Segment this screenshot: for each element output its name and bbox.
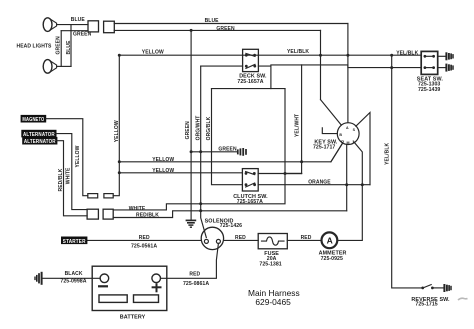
svg-text:725-0561A: 725-0561A — [131, 243, 157, 249]
wire magneto yellow — [46, 119, 88, 196]
wire red starter to solenoid — [87, 239, 201, 241]
svg-text:YEL/WHT: YEL/WHT — [295, 114, 301, 137]
svg-text:ALTERNATOR: ALTERNATOR — [24, 139, 56, 145]
alternator box 2 — [23, 137, 57, 145]
wire green to connector — [61, 30, 88, 32]
wire yellow / yel-blk top run — [119, 54, 421, 56]
clutch switch top contacts — [245, 172, 256, 175]
ammeter circle — [322, 232, 338, 248]
node green tap on yel/blk — [319, 54, 322, 57]
svg-text:YELLOW: YELLOW — [75, 145, 81, 167]
battery positive terminal — [152, 274, 161, 283]
wire clutch top-right to staircase — [258, 173, 301, 175]
wire orange run — [258, 184, 370, 186]
svg-text:RED: RED — [189, 271, 200, 277]
wire blue riser lamp2 — [70, 25, 72, 67]
deck switch top contacts — [245, 53, 256, 56]
key switch left spoke — [322, 128, 337, 134]
wire deck bottom-right jog — [258, 66, 271, 89]
svg-text:ORG/WHT: ORG/WHT — [195, 116, 201, 141]
connector (headlight) half A — [88, 21, 99, 32]
svg-text:BLACK: BLACK — [65, 271, 83, 277]
key switch terminal letters — [339, 126, 355, 145]
key switch lower-left spoke — [331, 143, 343, 162]
ground (battery chassis) — [35, 272, 42, 285]
wire cross run at 88.6 — [212, 88, 286, 90]
magneto box — [21, 115, 46, 123]
seat switch box — [421, 51, 438, 74]
svg-text:725-1715: 725-1715 — [415, 302, 437, 308]
wire yel/wht riser — [301, 65, 303, 174]
wire blue down to key switch top — [347, 24, 349, 123]
node yellow-2 tap — [118, 171, 121, 174]
svg-text:RED/BLK: RED/BLK — [58, 168, 64, 191]
svg-text:A: A — [346, 126, 349, 130]
wire green spur — [191, 151, 236, 153]
wire seat top to plug — [438, 55, 446, 57]
clutch switch bottom contacts — [245, 183, 256, 187]
wire yellow riser — [113, 55, 119, 196]
svg-text:GREEN: GREEN — [218, 147, 237, 153]
wire org/wht riser — [201, 66, 207, 237]
svg-text:RED/BLK: RED/BLK — [136, 212, 159, 218]
svg-text:RED: RED — [139, 235, 150, 241]
starter box — [62, 237, 87, 245]
head light lamp 1 — [43, 18, 56, 32]
svg-text:BATTERY: BATTERY — [120, 314, 146, 320]
svg-text:725-1717: 725-1717 — [313, 144, 335, 150]
wire blue main run — [114, 23, 348, 25]
svg-text:HEAD LIGHTS: HEAD LIGHTS — [17, 44, 53, 50]
svg-text:YEL/BLK: YEL/BLK — [287, 49, 309, 55]
svg-text:STARTER: STARTER — [63, 239, 86, 245]
clutch switch box — [242, 169, 258, 191]
deck switch box — [243, 49, 259, 71]
wire alternator2 red/blk — [57, 141, 87, 216]
connector (engine big) half B — [103, 209, 113, 219]
wire alternator1 white — [56, 134, 87, 210]
wire yellow-1 run — [119, 143, 342, 162]
wire green main run — [114, 29, 320, 31]
wire red/blk run — [113, 211, 347, 218]
faint pencil mark — [458, 298, 468, 300]
wire yel/blk reverse riser — [392, 55, 422, 288]
connector (seat plug top) — [446, 52, 453, 60]
svg-text:YELLOW: YELLOW — [152, 168, 174, 174]
svg-text:BLUE: BLUE — [66, 40, 72, 55]
node seat feed tap — [390, 66, 393, 69]
svg-text:GREEN: GREEN — [56, 36, 62, 55]
svg-text:YEL/BLK: YEL/BLK — [396, 50, 418, 56]
svg-text:725-1657A: 725-1657A — [237, 199, 263, 205]
svg-text:725-1381: 725-1381 — [259, 262, 281, 268]
svg-text:725-0861A: 725-0861A — [183, 281, 209, 287]
wire green diagonal into key switch — [321, 100, 342, 125]
connector (engine big) half A — [87, 209, 98, 219]
solenoid circle — [201, 227, 223, 249]
wire red solenoid to fuse — [224, 239, 259, 241]
wire lamp2 stub — [57, 65, 71, 67]
connector (reverse plug) — [444, 284, 451, 292]
battery cell 2 — [134, 295, 159, 303]
wire solenoid to battery plus — [161, 243, 219, 278]
node org/wht crossings — [199, 202, 202, 205]
svg-text:WHITE: WHITE — [129, 206, 146, 212]
svg-text:YELLOW: YELLOW — [152, 157, 174, 163]
seat switch bottom contacts — [424, 66, 436, 69]
svg-text:ORANGE: ORANGE — [308, 179, 331, 185]
wire green down to key switch — [320, 30, 322, 99]
wire green riser lamp area — [60, 31, 62, 67]
wire yellow-2 run to clutch top — [119, 172, 242, 174]
svg-text:725-1439: 725-1439 — [418, 87, 440, 93]
svg-text:GREEN: GREEN — [185, 121, 191, 140]
connector (engine small) half B — [104, 194, 113, 198]
connector (seat plug bottom) — [446, 64, 453, 72]
node yellow-1 tap — [118, 160, 121, 163]
node yel/wht on yellow-1 — [300, 160, 303, 163]
reverse switch contacts — [421, 285, 443, 290]
node blue/key tap — [346, 54, 349, 57]
solenoid terminal left — [204, 239, 208, 243]
solenoid terminal right — [216, 239, 220, 243]
svg-text:A: A — [327, 236, 333, 246]
node reverse riser tap — [390, 54, 393, 57]
wire seat feed run — [271, 65, 421, 68]
wire deck bottom-left to org/wht riser — [201, 65, 243, 67]
svg-text:RED: RED — [301, 235, 312, 241]
wire seat bottom to plug — [438, 67, 446, 69]
svg-text:725-0998A: 725-0998A — [60, 278, 86, 284]
battery box — [92, 266, 167, 310]
key switch bottom spoke to red/blk — [346, 144, 348, 210]
wire red fuse to ammeter — [287, 239, 321, 241]
battery cell 1 — [99, 295, 127, 303]
key switch circle U1 — [337, 123, 359, 145]
deck switch bottom contacts — [245, 64, 256, 68]
wire drop to white run — [113, 89, 285, 210]
alternator box 1 — [22, 130, 56, 138]
node orange taps — [345, 183, 348, 186]
node yellow riser top corner — [118, 54, 121, 57]
svg-text:725-1657A: 725-1657A — [237, 79, 263, 85]
svg-text:YELLOW: YELLOW — [114, 120, 120, 142]
connector (headlight) half B — [104, 21, 115, 33]
wire staircase to deck drop — [285, 173, 302, 175]
svg-text:YEL/BLK: YEL/BLK — [385, 143, 391, 165]
wire green long riser to ground — [190, 30, 192, 220]
node green tap — [190, 29, 193, 32]
connector (engine small) half A — [88, 194, 98, 198]
wire black battery to ground — [42, 277, 100, 279]
svg-text:GREEN: GREEN — [216, 26, 235, 32]
svg-text:ORG/BLK: ORG/BLK — [206, 116, 212, 140]
node staircase junction — [284, 172, 287, 175]
svg-text:MAGNETO: MAGNETO — [22, 117, 44, 123]
seat switch top contacts — [424, 55, 436, 58]
node green spur taps — [190, 150, 193, 153]
svg-text:629-0465: 629-0465 — [255, 297, 291, 307]
wire org/blk riser — [212, 89, 243, 185]
wire blue lamp1 to connector — [57, 24, 88, 26]
key switch upper-right spoke — [356, 113, 370, 185]
svg-text:WHITE: WHITE — [65, 167, 71, 184]
svg-text:BLUE: BLUE — [71, 17, 86, 23]
svg-text:BLUE: BLUE — [205, 18, 220, 24]
ground (chassis near solenoid) — [186, 220, 197, 227]
svg-text:B: B — [339, 133, 342, 137]
connector (green spur plug) — [238, 148, 246, 156]
svg-text:725-1426: 725-1426 — [220, 223, 242, 229]
head light lamp 2 — [43, 60, 56, 74]
fuse box — [258, 234, 287, 249]
svg-text:725-0925: 725-0925 — [321, 256, 343, 262]
svg-text:YELLOW: YELLOW — [142, 50, 164, 56]
fuse element — [262, 237, 285, 245]
key switch lower-right spoke — [338, 142, 363, 241]
battery negative terminal — [100, 274, 109, 283]
svg-text:RED: RED — [235, 235, 246, 241]
